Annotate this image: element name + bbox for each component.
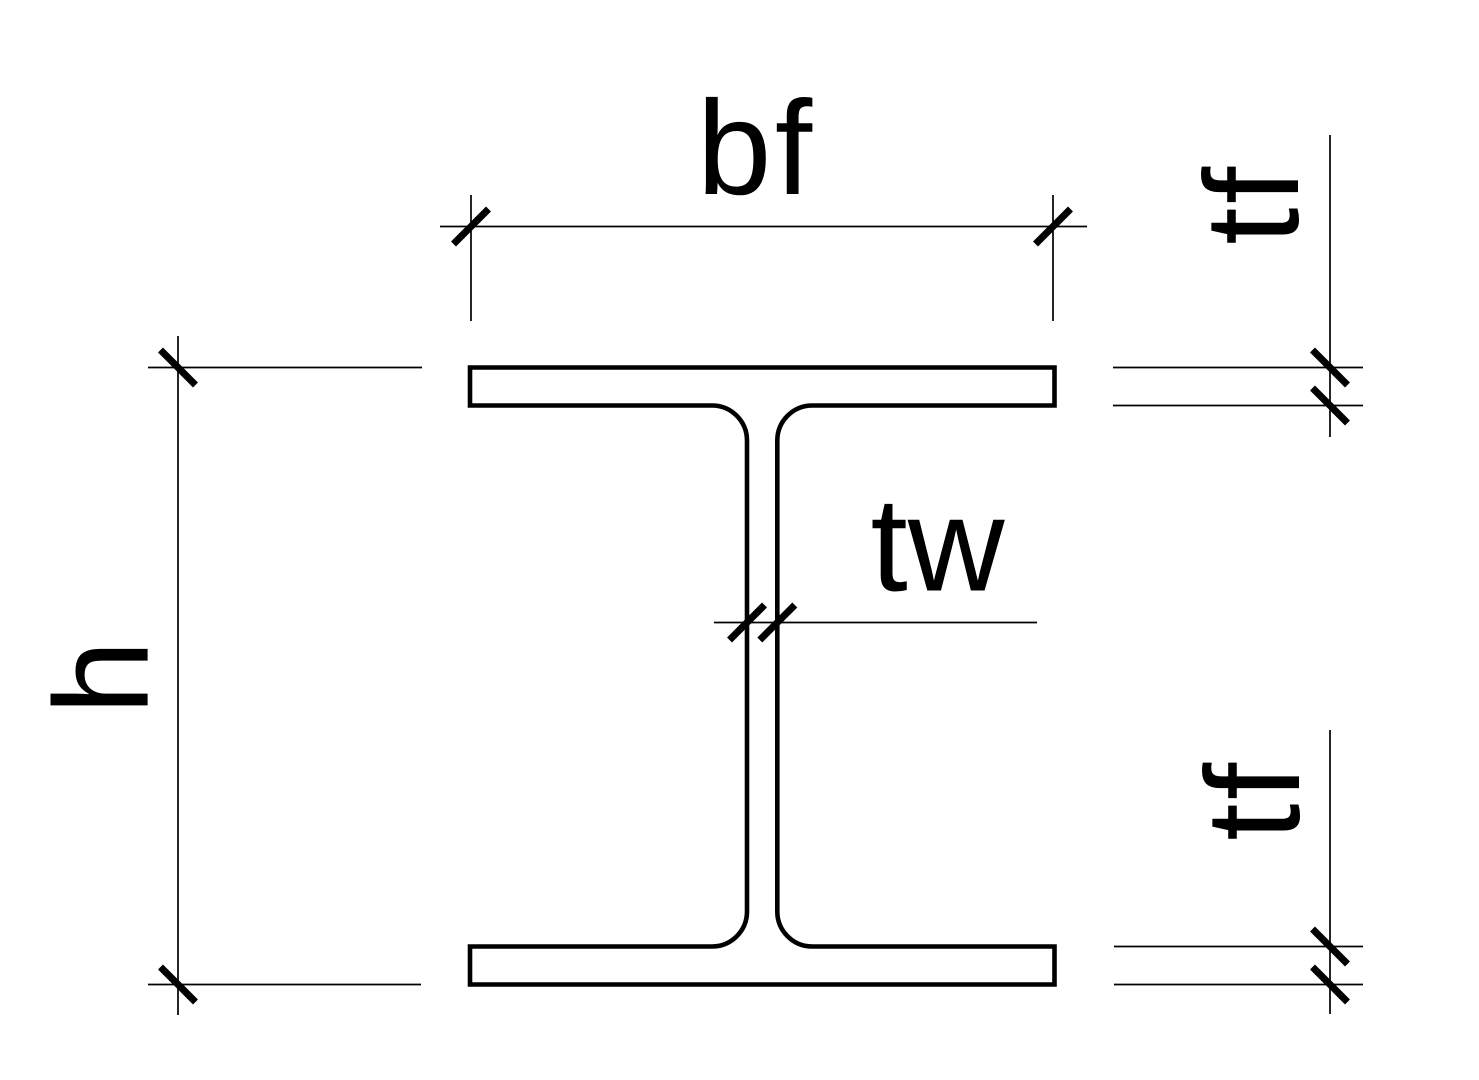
dimension tf top : lower extension line xyxy=(1113,405,1363,407)
dimension bf : right tick xyxy=(1036,209,1071,244)
dimension tw : dimension line xyxy=(714,622,1037,624)
dimension tf top : lower tick xyxy=(1313,388,1348,423)
svg-text:tf: tf xyxy=(1178,163,1327,244)
dimension tw : left tick xyxy=(730,605,765,640)
svg-text:tw: tw xyxy=(871,471,1006,620)
dimension bf : left extension line xyxy=(470,195,472,321)
svg-text:bf: bf xyxy=(697,74,816,223)
dimension bf : dimension line xyxy=(440,226,1087,228)
label tf bottom xyxy=(1179,759,1328,840)
dimension bf : left tick xyxy=(454,209,489,244)
label h xyxy=(28,640,177,715)
I-beam section outline xyxy=(470,368,1055,985)
dimension tw : right tick xyxy=(760,605,795,640)
dimension h : bottom tick xyxy=(161,967,196,1002)
dimension tf bottom : upper tick xyxy=(1313,929,1348,964)
label bf xyxy=(697,74,816,223)
dimension h : dimension line xyxy=(177,336,179,1015)
dimension tf top : dimension line xyxy=(1329,135,1331,437)
dimension bf : right extension line xyxy=(1052,195,1054,321)
dimension h : top tick xyxy=(161,350,196,385)
dimension tf top : upper tick xyxy=(1313,350,1348,385)
dimension tf bottom : dimension line xyxy=(1329,730,1331,1014)
dimension tf top : upper extension line xyxy=(1113,367,1363,369)
label tf top xyxy=(1178,163,1327,244)
svg-text:tf: tf xyxy=(1179,759,1328,840)
svg-text:h: h xyxy=(28,640,177,715)
dimension h : bottom extension line xyxy=(148,984,421,986)
label tw xyxy=(871,471,1006,620)
dimension tf bottom : lower extension line xyxy=(1114,984,1363,986)
dimension tf bottom : lower tick xyxy=(1313,967,1348,1002)
dimension h : top extension line xyxy=(148,367,422,369)
dimension tf bottom : upper extension line xyxy=(1114,946,1363,948)
